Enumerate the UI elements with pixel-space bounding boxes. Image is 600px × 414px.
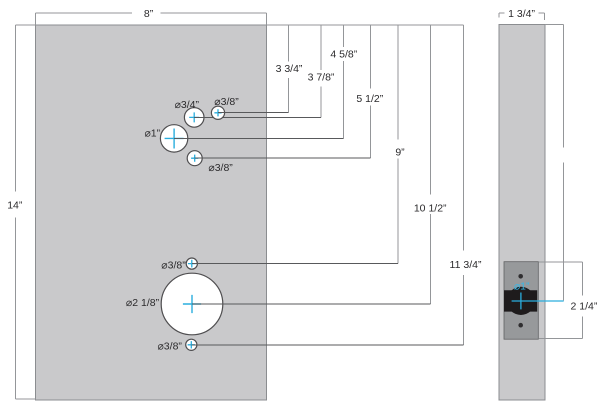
hole 3/8in top — [211, 106, 224, 119]
leader from 3/4 hole — [194, 116, 321, 118]
svg-text:2 1/4”: 2 1/4” — [570, 301, 597, 313]
dimension 8in line — [36, 13, 267, 25]
svg-text:⌀1”: ⌀1” — [144, 127, 160, 139]
svg-text:1 3/4”: 1 3/4” — [508, 8, 535, 20]
dimension 3 7/8in vertical — [320, 25, 322, 117]
right long extension line — [563, 24, 565, 300]
dimension 2 1/4in bracket — [538, 262, 582, 339]
hole 1in — [160, 125, 187, 152]
dimension 9in vertical — [397, 25, 399, 264]
leader from lowest 3/8 hole — [191, 344, 463, 346]
dimension 3 3/4in vertical — [288, 25, 290, 112]
top extension line — [267, 24, 464, 26]
hole 2 1/8in — [161, 273, 223, 335]
svg-text:⌀3/8”: ⌀3/8” — [161, 260, 186, 272]
svg-text:⌀3/8”: ⌀3/8” — [214, 96, 239, 108]
leader from 2 1/8 hole — [192, 303, 430, 305]
svg-text:3 3/4”: 3 3/4” — [276, 63, 303, 75]
hole 3/8in upper of bottom group — [186, 258, 197, 269]
leader from upper 3/8 hole of bottom group — [192, 263, 398, 265]
screw hole bottom — [518, 323, 523, 328]
hole 3/8in lower of top group — [187, 151, 202, 166]
screw hole top — [518, 274, 523, 279]
svg-text:5 1/2”: 5 1/2” — [356, 93, 383, 105]
svg-text:14”: 14” — [7, 200, 23, 212]
svg-text:⌀1”: ⌀1” — [514, 280, 530, 292]
dimension 14in line — [16, 25, 36, 399]
svg-text:⌀2 1/8”: ⌀2 1/8” — [126, 297, 160, 309]
svg-text:11 3/4”: 11 3/4” — [450, 259, 482, 271]
svg-text:9”: 9” — [395, 147, 405, 159]
svg-text:⌀3/4”: ⌀3/4” — [175, 99, 200, 111]
svg-text:8”: 8” — [144, 8, 154, 20]
svg-text:3 7/8”: 3 7/8” — [308, 72, 335, 84]
side plate — [499, 25, 545, 401]
svg-text:⌀3/8”: ⌀3/8” — [208, 162, 233, 174]
hole 3/4in — [184, 108, 204, 128]
leader from 1in hole — [174, 137, 343, 139]
right extension tick at side plate top — [545, 23, 564, 25]
dimension 10 1/2in vertical — [429, 25, 431, 304]
dimension 4 5/8in vertical — [342, 25, 344, 138]
dimension 11 3/4in vertical — [462, 25, 464, 345]
svg-text:10 1/2”: 10 1/2” — [414, 202, 447, 214]
front plate — [36, 25, 267, 400]
svg-text:4 5/8”: 4 5/8” — [330, 48, 357, 60]
mortise plate — [504, 262, 538, 340]
latch crosshair — [512, 293, 564, 310]
leader from lower 3/8 hole of top group — [195, 157, 371, 159]
dimension 5 1/2in vertical — [370, 25, 372, 158]
svg-text:⌀3/8”: ⌀3/8” — [157, 341, 182, 353]
leader from top 3/8 hole — [218, 111, 289, 113]
hole 3/8in lowest — [186, 339, 197, 350]
dimension 1 3/4in line — [499, 13, 544, 20]
latch body — [504, 290, 537, 311]
